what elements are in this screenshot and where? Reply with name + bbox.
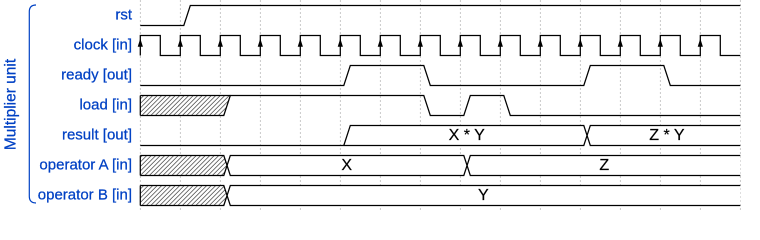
- svg-text:Z: Z: [599, 157, 609, 174]
- svg-text:operator B [in]: operator B [in]: [38, 187, 132, 204]
- svg-text:ready [out]: ready [out]: [61, 67, 132, 84]
- svg-text:Y: Y: [478, 187, 489, 204]
- svg-text:clock [in]: clock [in]: [74, 37, 132, 54]
- svg-text:X: X: [341, 157, 352, 174]
- svg-text:Multiplier unit: Multiplier unit: [2, 58, 19, 150]
- svg-text:load [in]: load [in]: [79, 97, 132, 114]
- svg-text:result [out]: result [out]: [62, 127, 132, 144]
- svg-text:operator A [in]: operator A [in]: [39, 157, 132, 174]
- svg-text:rst: rst: [115, 7, 132, 24]
- svg-text:X * Y: X * Y: [449, 127, 486, 144]
- svg-text:Z * Y: Z * Y: [649, 127, 685, 144]
